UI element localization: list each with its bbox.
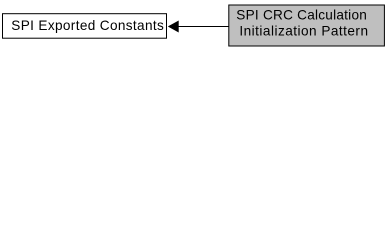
svg-text:SPI Exported Constants: SPI Exported Constants <box>11 18 164 33</box>
arrowhead pointing to SPI Exported Constants <box>169 21 178 31</box>
background <box>0 0 389 51</box>
node: SPI Exported Constants box <box>3 14 167 39</box>
svg-text:Initialization Pattern: Initialization Pattern <box>239 24 368 39</box>
svg-text:SPI CRC Calculation: SPI CRC Calculation <box>236 8 366 23</box>
node: SPI CRC Calculation Initialization Pattern box (current node, grey fill) <box>229 5 385 46</box>
wire: dependency arrow shaft <box>178 26 230 28</box>
